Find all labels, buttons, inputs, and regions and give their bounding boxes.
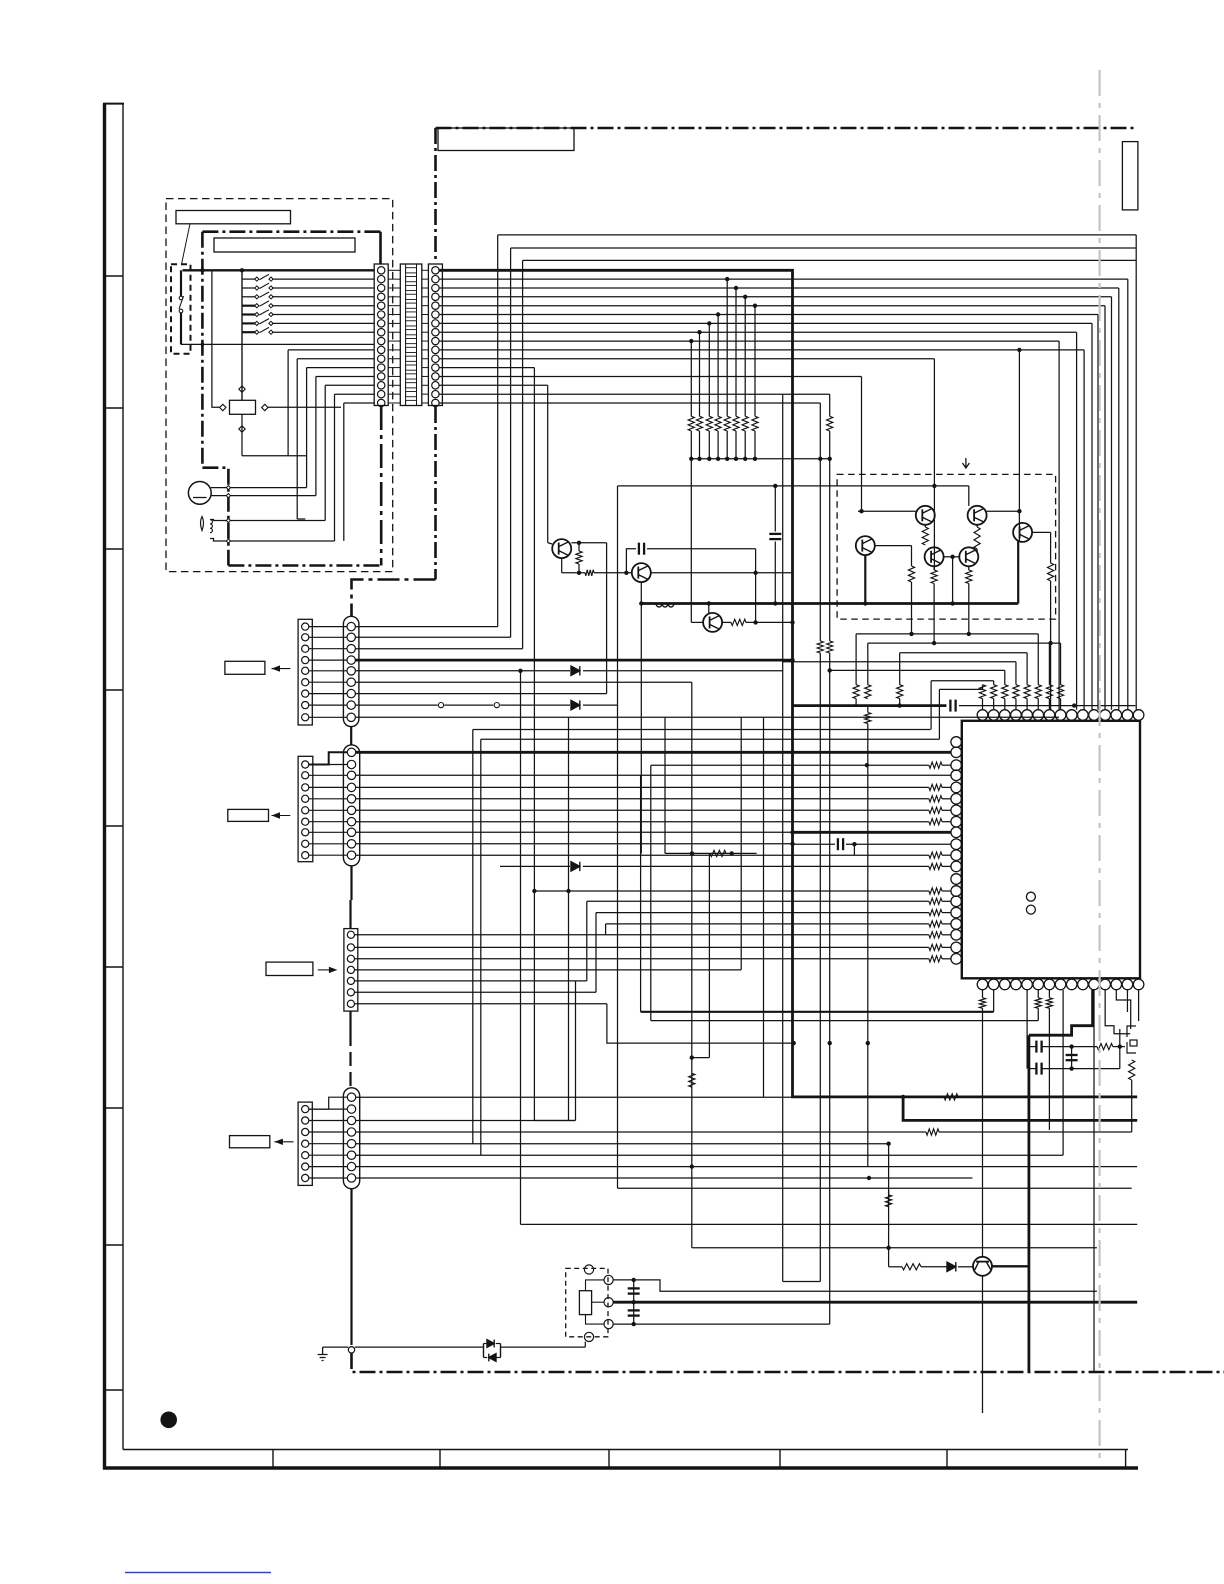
wire bbox=[501, 1346, 586, 1348]
pin bbox=[584, 1332, 593, 1341]
wire thick bbox=[793, 831, 951, 834]
IC left pin bbox=[951, 839, 962, 850]
pin bbox=[347, 828, 355, 836]
junction bbox=[697, 330, 701, 334]
wire vertical bbox=[691, 682, 693, 1248]
wire bbox=[1042, 1046, 1097, 1048]
wire bbox=[309, 626, 347, 628]
wire bbox=[356, 831, 793, 833]
pin bbox=[378, 337, 385, 344]
wire vertical bbox=[853, 844, 855, 855]
junction bbox=[852, 842, 856, 846]
wire vertical bbox=[520, 671, 522, 1225]
wire bbox=[942, 890, 951, 892]
capacitor bbox=[954, 700, 956, 712]
wire bbox=[548, 543, 552, 544]
wire vertical bbox=[744, 297, 746, 417]
resistor bbox=[929, 932, 942, 938]
wire bbox=[325, 384, 374, 386]
wire vertical bbox=[480, 739, 482, 1155]
wire bbox=[933, 566, 935, 570]
pin bbox=[378, 329, 385, 336]
junction bbox=[867, 1176, 871, 1180]
wire vertical bbox=[1126, 990, 1128, 1012]
ladder pad bbox=[406, 400, 417, 405]
bus wire bbox=[439, 384, 548, 386]
bus wire bbox=[868, 642, 1061, 644]
resistor bbox=[1035, 685, 1041, 699]
pin bbox=[432, 275, 439, 282]
IC left pin bbox=[951, 896, 962, 907]
bus vertical bbox=[1111, 297, 1113, 710]
IC left pin bbox=[951, 805, 962, 816]
wire vertical bbox=[664, 717, 666, 853]
pin bbox=[347, 667, 355, 675]
junction bbox=[950, 555, 954, 559]
frame tick bbox=[779, 1450, 781, 1469]
emitter wire bbox=[864, 555, 866, 603]
pin bbox=[302, 1174, 309, 1181]
bus wire bbox=[439, 278, 1128, 280]
frame tick bbox=[608, 1450, 610, 1469]
bus vertical bbox=[829, 394, 831, 416]
junction bbox=[1048, 641, 1052, 645]
wire vertical bbox=[349, 1011, 351, 1032]
resistor bbox=[827, 641, 833, 653]
IC bottom pin bbox=[1044, 979, 1055, 990]
wire bbox=[483, 1344, 485, 1358]
power rail thick vertical bbox=[1028, 1035, 1031, 1372]
wire vertical bbox=[1119, 1029, 1121, 1069]
wire bbox=[942, 854, 951, 856]
junction bbox=[689, 457, 693, 461]
wire vertical bbox=[1037, 699, 1039, 710]
junction bbox=[689, 339, 693, 343]
wire vertical bbox=[829, 653, 831, 1324]
wire bbox=[242, 455, 306, 457]
IC top pin bbox=[1022, 710, 1033, 721]
wire vertical bbox=[819, 653, 821, 1043]
ladder pad bbox=[406, 268, 417, 273]
junction bbox=[818, 457, 822, 461]
switch contact bbox=[179, 309, 183, 313]
switch blade bbox=[260, 310, 270, 315]
wire bbox=[355, 946, 929, 948]
wire bbox=[746, 621, 793, 623]
IC bottom pin bbox=[1055, 979, 1066, 990]
wire bbox=[309, 704, 347, 706]
resistor bbox=[929, 888, 942, 894]
pin bbox=[347, 689, 355, 697]
wire bbox=[942, 958, 951, 960]
wire vertical bbox=[1026, 990, 1028, 1069]
wire vertical bbox=[584, 1342, 586, 1348]
wire vertical bbox=[699, 332, 701, 416]
wire bbox=[583, 670, 783, 672]
pin bbox=[347, 1093, 355, 1101]
junction bbox=[518, 669, 522, 673]
power rail thick bbox=[903, 1097, 1137, 1121]
footer blue rule bbox=[125, 1572, 271, 1574]
junction bbox=[790, 658, 794, 662]
junction bbox=[773, 601, 777, 605]
pin bbox=[378, 399, 385, 406]
switch blade bbox=[260, 319, 270, 324]
coil bbox=[210, 520, 212, 533]
wire vertical bbox=[855, 699, 857, 706]
ladder pad bbox=[406, 312, 417, 317]
wire vertical bbox=[315, 377, 317, 496]
wire bbox=[587, 900, 929, 902]
arrowhead bbox=[329, 967, 338, 973]
wire bbox=[1113, 1046, 1125, 1048]
junction bbox=[690, 1164, 694, 1168]
diode bbox=[571, 862, 580, 871]
junction bbox=[859, 509, 863, 513]
bus wire bbox=[439, 296, 1111, 298]
wire bbox=[942, 786, 951, 788]
junction bbox=[909, 632, 913, 636]
wire bbox=[388, 349, 400, 351]
mech boundary left bbox=[201, 232, 204, 468]
wire bbox=[521, 1223, 523, 1225]
page fold line bbox=[1098, 70, 1100, 1462]
wire bbox=[606, 923, 929, 925]
wire vertical bbox=[755, 549, 757, 623]
detector box bbox=[230, 400, 256, 414]
resistor bbox=[710, 850, 726, 856]
title box bbox=[438, 128, 574, 151]
junction bbox=[707, 457, 711, 461]
pin bbox=[432, 399, 439, 406]
wire bbox=[422, 393, 429, 395]
wire vertical bbox=[617, 486, 619, 1188]
wire bbox=[344, 402, 374, 404]
arrowhead bbox=[274, 1139, 283, 1145]
junction bbox=[577, 571, 581, 575]
wire thick bbox=[356, 751, 951, 754]
IC left pin bbox=[951, 747, 962, 758]
pin bbox=[302, 784, 309, 791]
resistor bbox=[929, 898, 942, 904]
resistor bbox=[1035, 998, 1041, 1009]
wire vertical bbox=[1037, 990, 1039, 998]
wire bbox=[942, 821, 951, 823]
motor M bbox=[188, 482, 211, 505]
frame tick bbox=[104, 966, 123, 968]
resistor bbox=[865, 713, 871, 724]
wire vertical bbox=[640, 582, 642, 853]
IC top pin bbox=[1133, 710, 1144, 721]
junction bbox=[1118, 1044, 1122, 1048]
bus wire bbox=[439, 358, 934, 360]
wire bbox=[500, 865, 570, 867]
wire bbox=[355, 626, 497, 628]
junction bbox=[690, 1055, 694, 1059]
page frame top cap bbox=[103, 103, 124, 105]
arrow shaft bbox=[318, 969, 330, 971]
diode D2 bbox=[489, 1354, 496, 1362]
ladder rail bbox=[405, 264, 407, 406]
resistor bbox=[929, 762, 942, 768]
wire vertical bbox=[296, 359, 298, 519]
junction bbox=[792, 1041, 796, 1045]
pin bbox=[432, 390, 439, 397]
wire bbox=[444, 704, 493, 706]
wire vertical bbox=[982, 990, 984, 998]
bus vertical bbox=[547, 385, 549, 542]
IC left pin bbox=[951, 782, 962, 793]
wire vertical bbox=[774, 542, 776, 604]
bus wire bbox=[439, 305, 1105, 307]
bus vertical bbox=[861, 377, 863, 512]
wire bbox=[942, 946, 951, 948]
ladder pad bbox=[406, 374, 417, 379]
wire vertical bbox=[1062, 990, 1064, 1155]
wire vertical bbox=[343, 403, 345, 541]
IC left pin bbox=[951, 760, 962, 771]
pin bbox=[432, 382, 439, 389]
wire bbox=[355, 991, 597, 993]
IC top pin bbox=[977, 710, 988, 721]
junction bbox=[532, 889, 536, 893]
junction bbox=[898, 703, 902, 707]
bus vertical bbox=[819, 403, 821, 459]
pin bbox=[347, 931, 354, 938]
resistor bbox=[1046, 998, 1052, 1009]
junction bbox=[624, 571, 628, 575]
junction bbox=[790, 830, 794, 834]
wire bbox=[309, 786, 347, 788]
wire bbox=[388, 305, 400, 307]
pin bbox=[378, 320, 385, 327]
wire bbox=[651, 764, 929, 766]
arrow shaft bbox=[274, 1141, 293, 1143]
capacitor bbox=[1066, 1054, 1078, 1056]
switch contact diamond bbox=[269, 295, 273, 299]
bus wire bbox=[900, 652, 1027, 654]
wire bbox=[309, 636, 347, 638]
arrowhead bbox=[272, 665, 281, 671]
capacitor bbox=[643, 543, 645, 555]
pin bbox=[302, 818, 309, 825]
pin bbox=[347, 1162, 355, 1170]
bus wire bbox=[439, 314, 1098, 316]
IC bottom pin bbox=[1100, 979, 1111, 990]
connector CN4 bbox=[344, 929, 358, 1012]
junction bbox=[753, 304, 757, 308]
IC option pad bbox=[1026, 892, 1035, 901]
wire bbox=[618, 1187, 1132, 1189]
wire bbox=[422, 322, 429, 324]
junction bbox=[1069, 1044, 1073, 1048]
IC left pin bbox=[951, 827, 962, 838]
switch blade bbox=[260, 292, 270, 297]
pin bbox=[347, 955, 354, 962]
pin bbox=[378, 346, 385, 353]
pin bbox=[347, 1105, 355, 1113]
wire bbox=[309, 821, 347, 823]
pin bbox=[378, 293, 385, 300]
switch dashed box bbox=[171, 264, 191, 354]
transistor array dashed box bbox=[837, 474, 1056, 619]
resistor bbox=[853, 685, 859, 699]
wire bbox=[578, 543, 580, 551]
ladder pad bbox=[406, 356, 417, 361]
crystal dashed box bbox=[566, 1268, 608, 1336]
IC top pin bbox=[1011, 710, 1022, 721]
wire bbox=[692, 1247, 1097, 1249]
pin bbox=[604, 1275, 613, 1284]
wire bbox=[987, 510, 1020, 512]
pin bbox=[378, 355, 385, 362]
wire vertical bbox=[349, 900, 351, 929]
frame tick bbox=[104, 1107, 123, 1109]
wire bbox=[422, 340, 429, 342]
bus vertical bbox=[1018, 350, 1020, 511]
wire bbox=[722, 621, 731, 623]
junction bbox=[753, 620, 757, 624]
wire bbox=[388, 296, 400, 298]
resistor bbox=[1013, 685, 1019, 699]
wire vertical bbox=[1138, 990, 1140, 1021]
leader line bbox=[182, 224, 191, 264]
pin bbox=[378, 382, 385, 389]
pin bbox=[347, 771, 355, 779]
switch contact diamond bbox=[269, 286, 273, 290]
switch wire bbox=[180, 313, 182, 344]
pin bbox=[347, 851, 355, 859]
switch contact diamond bbox=[255, 321, 259, 325]
ladder pad bbox=[406, 392, 417, 397]
wire vertical bbox=[933, 584, 935, 643]
wire vertical bbox=[911, 582, 913, 634]
junction bbox=[201, 343, 205, 347]
inductor bbox=[656, 604, 674, 608]
capacitor bbox=[837, 838, 839, 850]
pin bbox=[302, 667, 309, 674]
wire vertical bbox=[911, 546, 913, 566]
wire vertical bbox=[829, 459, 831, 641]
resistor bbox=[1024, 685, 1030, 699]
pin bbox=[347, 783, 355, 791]
board boundary dash-dot vertical lower bbox=[434, 407, 437, 580]
resistor bbox=[926, 1129, 939, 1135]
wire bbox=[309, 681, 347, 683]
resistor bbox=[966, 570, 972, 584]
wire vertical bbox=[690, 341, 692, 416]
diode D1 bbox=[487, 1340, 494, 1348]
wire vertical bbox=[1026, 699, 1028, 710]
pin bbox=[378, 275, 385, 282]
wire vertical bbox=[930, 681, 932, 730]
pin bbox=[432, 355, 439, 362]
wire bbox=[355, 670, 570, 672]
wire bbox=[309, 809, 347, 811]
bias feed wire bbox=[618, 485, 969, 487]
pin bbox=[432, 320, 439, 327]
wire bbox=[288, 349, 374, 351]
wire bbox=[356, 854, 929, 856]
wire vertical bbox=[350, 1189, 352, 1345]
wire bbox=[924, 525, 926, 527]
wire vertical bbox=[595, 913, 597, 993]
wire bbox=[480, 1346, 484, 1348]
board boundary dash-dot bottom bbox=[352, 1353, 1224, 1372]
wire bbox=[355, 1346, 480, 1348]
mech boundary right lower dash-dot bbox=[380, 406, 383, 566]
pin bbox=[347, 1140, 355, 1148]
wire vertical bbox=[754, 306, 756, 417]
wire vertical bbox=[888, 1248, 890, 1267]
junction bbox=[1069, 1066, 1073, 1070]
resistor bbox=[902, 1264, 921, 1270]
wire bbox=[388, 402, 400, 404]
pin bbox=[302, 772, 309, 779]
switch contact diamond bbox=[255, 277, 259, 281]
wire bbox=[335, 393, 375, 395]
pin bbox=[378, 302, 385, 309]
bus wire bbox=[439, 322, 1092, 324]
capacitor bbox=[1040, 1041, 1042, 1053]
pin bbox=[347, 678, 355, 686]
wire bbox=[316, 376, 374, 378]
wire vertical bbox=[867, 643, 869, 685]
wire bbox=[356, 1177, 973, 1179]
capacitor bbox=[842, 838, 844, 850]
wire bbox=[422, 305, 429, 307]
wire vertical bbox=[1048, 990, 1050, 998]
IC top pin bbox=[988, 710, 999, 721]
connector CN3b bbox=[343, 745, 359, 866]
resistor bbox=[742, 416, 748, 431]
IC bottom pin bbox=[1000, 979, 1011, 990]
wire bbox=[309, 1154, 347, 1156]
wire vertical bbox=[982, 1008, 984, 1257]
IC bottom pin bbox=[1066, 979, 1077, 990]
pin bbox=[432, 302, 439, 309]
transistor Q1 bbox=[552, 539, 571, 558]
wire bbox=[422, 278, 429, 280]
switch stub bbox=[242, 313, 256, 315]
junction bbox=[577, 541, 581, 545]
IC top pin bbox=[1033, 710, 1044, 721]
wire bbox=[1032, 531, 1051, 533]
connection diamond bbox=[239, 386, 245, 392]
junction bbox=[1072, 703, 1076, 707]
wire bbox=[272, 287, 374, 289]
wire bbox=[356, 1166, 1137, 1168]
switch stub bbox=[242, 287, 256, 289]
power rail thick bbox=[439, 270, 1137, 1097]
switch contact bbox=[179, 296, 183, 300]
resistor bbox=[585, 570, 594, 576]
ladder pad bbox=[406, 383, 417, 388]
IC bottom pin bbox=[977, 979, 988, 990]
pin bbox=[302, 657, 309, 664]
wire vertical bbox=[1048, 1008, 1050, 1130]
resistor bbox=[689, 1073, 695, 1087]
pin bbox=[302, 795, 309, 802]
bus wire bbox=[931, 680, 994, 682]
wire vertical bbox=[708, 431, 710, 459]
IC left pin bbox=[951, 919, 962, 930]
IC bottom pin bbox=[1022, 979, 1033, 990]
wire vertical bbox=[993, 699, 995, 710]
capacitor bbox=[1040, 1063, 1042, 1075]
IC left pin bbox=[951, 770, 962, 781]
wire bbox=[647, 548, 756, 550]
